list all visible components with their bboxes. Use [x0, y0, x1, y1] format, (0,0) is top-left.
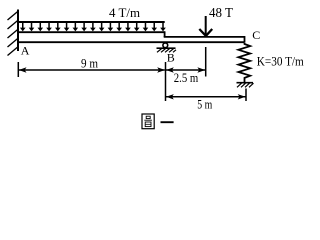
roller ground hatches	[157, 49, 176, 53]
wall hatch 2	[8, 21, 18, 30]
beam bottom line A-C	[18, 41, 245, 43]
point load 48 T arrowhead	[199, 29, 212, 36]
svg-text:K=30 T/m: K=30 T/m	[257, 54, 304, 68]
wall hatch 5	[8, 47, 18, 56]
caption character 一 (one)	[161, 121, 174, 123]
roller support ground line	[157, 47, 176, 49]
beam step at B	[164, 31, 166, 37]
wall hatch 1	[8, 12, 18, 21]
distributed load top line	[17, 21, 165, 23]
2.5m left arrowhead	[166, 67, 174, 72]
dimension line 2.5 m	[166, 69, 206, 71]
beam segment A-B top line	[18, 31, 165, 33]
9m right arrowhead	[157, 67, 165, 72]
svg-text:2.5 m: 2.5 m	[174, 71, 199, 85]
wall hatch 4	[8, 39, 18, 48]
roller support at B : circle	[163, 43, 168, 48]
svg-text:48 T: 48 T	[209, 6, 233, 21]
svg-text:9 m: 9 m	[81, 56, 98, 70]
dimension line 9 m	[19, 69, 165, 71]
caption character 圖 (figure)	[142, 114, 154, 129]
svg-text:A: A	[21, 44, 30, 58]
spring ground line	[237, 82, 254, 84]
beam right end cap at C	[244, 36, 246, 42]
distributed load arrows 4 T/m	[20, 23, 166, 31]
5m right arrowhead	[238, 94, 246, 99]
svg-text:5 m: 5 m	[197, 98, 212, 112]
svg-text:4 T/m: 4 T/m	[109, 5, 140, 20]
beam segment B-C top line	[164, 36, 245, 38]
5m left arrowhead	[166, 94, 174, 99]
2.5m right arrowhead	[197, 67, 205, 72]
spring K at C	[238, 43, 250, 83]
dimension extension tick under spring	[245, 89, 247, 102]
dimension line 5 m	[166, 96, 246, 98]
dimension extension tick at A	[17, 62, 19, 77]
svg-text:C: C	[252, 28, 260, 42]
9m left arrowhead	[19, 67, 27, 72]
spring ground hatches	[237, 83, 254, 87]
fixed support wall at A	[17, 10, 19, 52]
wall hatch 3	[8, 30, 18, 39]
point load 48 T arrow shaft	[205, 16, 207, 35]
dimension extension line under 48 T	[205, 47, 207, 77]
dimension extension line at B	[165, 62, 167, 101]
